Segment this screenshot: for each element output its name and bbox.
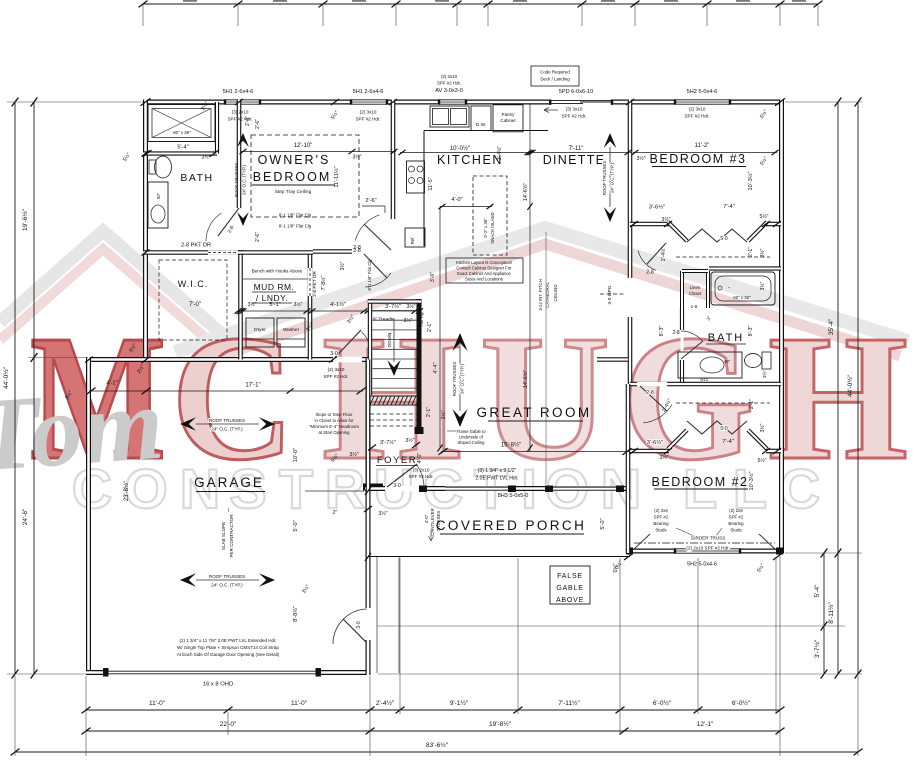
- garage side door 3-0: [343, 619, 368, 644]
- svg-text:10'-3½": 10'-3½": [748, 472, 755, 491]
- svg-text:SLAB SLOPE: SLAB SLOPE: [221, 522, 226, 550]
- svg-text:3½": 3½": [403, 317, 412, 324]
- bedroom2 corner braces: [634, 534, 650, 549]
- svg-text:Dryer: Dryer: [254, 327, 266, 333]
- svg-text:SPF #2 Hdr.: SPF #2 Hdr.: [323, 374, 348, 379]
- stair left wall: [368, 299, 372, 395]
- hall bath tub wall: [709, 266, 781, 270]
- girder truss dashdot: [634, 542, 775, 544]
- svg-text:Frame Gable to: Frame Gable to: [456, 429, 486, 434]
- svg-text:8'-1 1/8" Flat Clg: 8'-1 1/8" Flat Clg: [279, 224, 312, 229]
- svg-text:10'-0": 10'-0": [293, 448, 299, 462]
- svg-text:15'-8½": 15'-8½": [501, 442, 521, 449]
- washer box: [277, 318, 305, 347]
- svg-text:6'-0½": 6'-0½": [653, 699, 672, 707]
- watermark McHugh logo roof gables: [0, 228, 908, 365]
- top extension lines: [142, 4, 144, 26]
- left exterior wall: [143, 100, 148, 361]
- svg-text:2'-6": 2'-6": [255, 232, 261, 242]
- bedroom3 closet angled walls: [668, 222, 687, 241]
- bedroom2 window 5H2: [675, 549, 740, 554]
- watermark text CONSTRUCTION LLC: [72, 457, 820, 520]
- bottom extension lines: [85, 676, 87, 756]
- svg-text:4'-4": 4'-4": [433, 362, 439, 373]
- hall west wall lower: [628, 317, 633, 384]
- great room vertical dim lines: [439, 207, 441, 449]
- stair treads: [373, 310, 417, 312]
- svg-text:24" O.C. (TYP.): 24" O.C. (TYP.): [211, 583, 243, 588]
- svg-text:48": 48": [724, 359, 731, 364]
- garage roof trusses row1: [180, 417, 196, 430]
- svg-text:At Each Side Of Garage Door Op: At Each Side Of Garage Door Opening (See…: [177, 652, 280, 657]
- dinette roof trusses: [604, 133, 617, 148]
- bath south wall: [630, 382, 781, 387]
- bedroom2 closet angled walls: [668, 430, 687, 449]
- bath toilet: [155, 156, 172, 178]
- kitchen counters: [424, 130, 548, 132]
- svg-text:10'-0½": 10'-0½": [450, 145, 470, 152]
- svg-text:FALSE: FALSE: [557, 573, 583, 580]
- svg-text:Sloped Ceiling: Sloped Ceiling: [457, 440, 485, 445]
- svg-text:Hdr Hgt: Hdr Hgt: [419, 311, 424, 326]
- stair right wall: [417, 299, 422, 433]
- right dimension line 44ft: [857, 102, 859, 674]
- bedroom2 bottom wall: [626, 549, 783, 554]
- garage right wall lower: [366, 640, 371, 675]
- svg-text:(2) 2x6: (2) 2x6: [654, 508, 668, 513]
- front wall window 8H3 left: [445, 486, 508, 491]
- bedroom3 closet bifold doors 5-0: [687, 229, 747, 242]
- svg-text:2": 2": [333, 510, 338, 516]
- svg-text:22'-0": 22'-0": [220, 721, 237, 728]
- svg-text:44'-0½": 44'-0½": [2, 366, 10, 389]
- svg-text:Sizes And Locations: Sizes And Locations: [465, 277, 503, 282]
- garage left wall: [86, 357, 91, 675]
- svg-text:5H2 5-0x4-6: 5H2 5-0x4-6: [687, 562, 717, 568]
- svg-text:4'-0": 4'-0": [417, 453, 423, 464]
- svg-text:in Closet to Allow for: in Closet to Allow for: [315, 418, 354, 423]
- stair headroom dashed: [370, 413, 418, 415]
- svg-text:Bearing: Bearing: [728, 521, 744, 526]
- svg-text:24'-6": 24'-6": [22, 508, 29, 525]
- kitchen island dashed: [473, 176, 507, 255]
- svg-text:3½": 3½": [339, 261, 346, 270]
- svg-text:5PD 6-0x6-10: 5PD 6-0x6-10: [559, 89, 594, 95]
- porch sidewalk lines: [376, 557, 378, 673]
- right dimension line 5-4: [823, 553, 825, 674]
- bedroom2 closet bifold doors: [687, 421, 747, 434]
- kitchen pantry cabinet: [493, 105, 523, 132]
- right extension lines: [785, 101, 862, 103]
- svg-text:(3) 3x10: (3) 3x10: [566, 107, 583, 112]
- svg-text:14'-6⅝": 14'-6⅝": [523, 183, 529, 201]
- svg-text:3½": 3½": [405, 437, 414, 444]
- svg-text:5H1 2-6x4-6: 5H1 2-6x4-6: [223, 89, 254, 95]
- svg-text:Bearing: Bearing: [653, 521, 669, 526]
- svg-text:SPF #2: SPF #2: [729, 515, 744, 520]
- bedroom2 hall door: [637, 382, 667, 387]
- svg-text:BEDROOM: BEDROOM: [253, 170, 332, 184]
- svg-text:OWNER'S: OWNER'S: [258, 153, 331, 167]
- svg-text:O: O: [124, 457, 168, 520]
- svg-text:24" O.C. (TYP.): 24" O.C. (TYP.): [610, 162, 615, 193]
- svg-text:Ref: Ref: [410, 237, 415, 245]
- svg-text:23'-8½": 23'-8½": [123, 481, 130, 501]
- svg-text:2'-4½": 2'-4½": [376, 699, 395, 707]
- shower enclosure: [148, 105, 215, 142]
- bath south wall / wic north wall: [143, 250, 243, 255]
- bath vanity: [148, 182, 168, 228]
- svg-text:8H3 5-0x5-0: 8H3 5-0x5-0: [498, 493, 529, 499]
- svg-text:16 x 8 OHD: 16 x 8 OHD: [203, 682, 233, 688]
- svg-text:KITCHEN: KITCHEN: [437, 153, 503, 167]
- svg-text:3½": 3½": [201, 154, 210, 161]
- svg-text:7'-0": 7'-0": [189, 302, 201, 308]
- garage roof trusses row2: [180, 573, 196, 586]
- svg-text:T: T: [279, 457, 313, 520]
- svg-text:8'-3": 8'-3": [748, 326, 754, 337]
- svg-text:(2) 2x10 SPF #2 Hdr.: (2) 2x10 SPF #2 Hdr.: [686, 546, 729, 551]
- kitchen window AV 3-0x3-0: [439, 100, 466, 105]
- svg-text:3'-7½": 3'-7½": [385, 303, 401, 310]
- front door opening 3-0: [385, 486, 419, 492]
- svg-text:5½": 5½": [759, 213, 768, 220]
- svg-text:Exact Cabinet And Appliance: Exact Cabinet And Appliance: [457, 271, 511, 276]
- svg-text:11'-2": 11'-2": [695, 143, 710, 149]
- bath vanity: [678, 352, 742, 378]
- svg-text:8'-1 1/8" Flat Clg: 8'-1 1/8" Flat Clg: [279, 213, 312, 218]
- great room roof trusses: [452, 333, 467, 351]
- svg-text:R: R: [325, 457, 365, 520]
- svg-text:14'-6⅝": 14'-6⅝": [523, 370, 529, 388]
- bedroom2 west wall: [626, 384, 631, 553]
- svg-text:5-0: 5-0: [720, 236, 727, 242]
- svg-text:11'-0": 11'-0": [291, 700, 308, 707]
- svg-text:3½": 3½": [378, 510, 387, 517]
- svg-text:2'-1": 2'-1": [749, 399, 755, 409]
- svg-text:3-0: 3-0: [356, 621, 362, 628]
- bottom dimension row 1: [86, 709, 780, 711]
- svg-text:GREAT ROOM: GREAT ROOM: [476, 405, 591, 420]
- garage interior dim 17-1: [143, 390, 363, 392]
- svg-text:5½": 5½": [757, 457, 766, 464]
- svg-text:2-8: 2-8: [353, 248, 361, 254]
- svg-text:SPF #2 Hdr.: SPF #2 Hdr.: [684, 114, 709, 119]
- svg-text:9" Treads: 9" Treads: [373, 317, 394, 323]
- svg-text:2-8: 2-8: [646, 270, 654, 276]
- kitchen-bedroom wall: [391, 100, 396, 220]
- svg-text:3½": 3½": [759, 248, 766, 257]
- svg-text:Deck / Landing: Deck / Landing: [540, 77, 570, 82]
- front wall window 8H3 right: [553, 486, 616, 491]
- svg-text:4'-1½": 4'-1½": [330, 301, 346, 308]
- svg-text:3½": 3½": [759, 281, 766, 290]
- svg-text:Kitchen Layout Is Conceptual!: Kitchen Layout Is Conceptual!: [456, 260, 512, 265]
- svg-text:2'-1": 2'-1": [426, 407, 432, 417]
- svg-text:ROOF TRUSSES: ROOF TRUSSES: [209, 418, 245, 423]
- svg-text:SPF #2 Hdr.: SPF #2 Hdr.: [355, 117, 380, 122]
- shower south wall: [143, 151, 217, 155]
- right exterior wall: [779, 100, 784, 554]
- svg-text:Step Tray Ceiling: Step Tray Ceiling: [275, 189, 312, 195]
- svg-text:3½": 3½": [759, 423, 766, 432]
- svg-text:(3) 2x10: (3) 2x10: [413, 468, 430, 473]
- garage top wall stub at foyer: [362, 357, 370, 362]
- svg-text:12'-1": 12'-1": [697, 721, 714, 728]
- svg-text:8'-8½": 8'-8½": [292, 606, 299, 622]
- svg-text:11'-11½": 11'-11½": [333, 166, 340, 187]
- bath-bedroom wall: [237, 100, 242, 209]
- svg-text:SPF #2 Hdr.: SPF #2 Hdr.: [408, 474, 433, 479]
- bath west wall: [680, 308, 684, 330]
- svg-text:60" x 36": 60" x 36": [173, 130, 191, 135]
- svg-text:2'-1": 2'-1": [748, 247, 754, 257]
- svg-text:2'-6": 2'-6": [245, 116, 251, 126]
- owners bedroom dim line: [241, 151, 396, 153]
- svg-text:C: C: [72, 457, 112, 520]
- svg-text:2-8 PKT DR: 2-8 PKT DR: [312, 271, 318, 297]
- svg-text:FOYER: FOYER: [377, 455, 417, 466]
- mudroom east wall: [308, 253, 313, 360]
- svg-text:GIRDER TRUSS: GIRDER TRUSS: [691, 536, 726, 541]
- svg-text:9'-1½": 9'-1½": [450, 699, 469, 707]
- svg-text:CEILING: CEILING: [553, 284, 558, 302]
- svg-text:SPF #2 Hdr.: SPF #2 Hdr.: [561, 114, 586, 119]
- garage dim 4-2: [89, 390, 143, 392]
- svg-text:Studs: Studs: [730, 528, 742, 533]
- left extension lines: [7, 101, 143, 103]
- svg-text:7'-11": 7'-11": [569, 146, 584, 152]
- left dimension line 19ft/24ft: [33, 102, 35, 674]
- pocket door dashes bath: [208, 250, 238, 254]
- kitchen DW: [471, 106, 491, 131]
- garage right wall upper: [366, 358, 371, 608]
- svg-text:W/ Single Top Plate + Simpson: W/ Single Top Plate + Simpson CMST14 Coi…: [177, 645, 279, 650]
- svg-text:5'-4": 5'-4": [814, 584, 821, 598]
- mudroom pocket door dashes: [308, 268, 312, 296]
- bedroom3 south wall: [630, 222, 669, 227]
- svg-text:83'-6½": 83'-6½": [426, 741, 449, 749]
- bedroom3 door leaf: [647, 243, 666, 264]
- svg-text:8'-1 1/8" Flat Clg: 8'-1 1/8" Flat Clg: [367, 259, 372, 291]
- top dimension line: [143, 3, 818, 5]
- svg-text:MUD RM.: MUD RM.: [254, 282, 295, 292]
- svg-text:3½": 3½": [659, 454, 668, 461]
- svg-text:6'-0½": 6'-0½": [732, 699, 751, 707]
- svg-text:60": 60": [156, 192, 161, 199]
- watermark text MCHUGH: [30, 298, 908, 498]
- svg-text:8'-11½": 8'-11½": [827, 602, 835, 624]
- svg-text:5-0: 5-0: [720, 426, 727, 432]
- bedroom2 corner blocks: [626, 548, 633, 555]
- great room stub wall: [597, 357, 628, 362]
- svg-text:ROOF TRUSSES: ROOF TRUSSES: [602, 161, 607, 196]
- svg-text:GARAGE: GARAGE: [194, 475, 264, 490]
- linen closet: [680, 271, 684, 308]
- svg-text:24" O.C. (TYP.): 24" O.C. (TYP.): [211, 427, 243, 432]
- kitchen dims: [400, 152, 530, 154]
- svg-text:ROOF TRUSSES: ROOF TRUSSES: [452, 362, 457, 397]
- svg-text:Washer: Washer: [283, 327, 300, 333]
- svg-text:3½": 3½": [661, 216, 670, 223]
- svg-text:DOWN: DOWN: [387, 333, 392, 348]
- svg-text:60" x 32": 60" x 32": [733, 295, 751, 300]
- patio door 5PD: [550, 100, 612, 105]
- svg-text:5H2 5-0x4-6: 5H2 5-0x4-6: [687, 89, 718, 95]
- svg-text:7'-4": 7'-4": [723, 204, 735, 210]
- svg-text:3'-6½": 3'-6½": [649, 204, 665, 211]
- svg-text:24" O.C. (TYP.): 24" O.C. (TYP.): [460, 363, 465, 394]
- svg-text:4'-0": 4'-0": [451, 197, 462, 203]
- misc left ticks: [235, 99, 243, 105]
- svg-text:3½": 3½": [247, 301, 256, 308]
- svg-text:11'-5": 11'-5": [428, 177, 434, 190]
- svg-text:3'-7½": 3'-7½": [813, 639, 821, 658]
- svg-text:3'-6": 3'-6": [430, 272, 436, 282]
- tub: [711, 272, 775, 305]
- bedroom2 closet shelf dashed: [676, 402, 770, 404]
- great room width dim: [441, 451, 629, 453]
- svg-text:10'-3½": 10'-3½": [747, 172, 754, 191]
- svg-text:SPF #2 Hdr.: SPF #2 Hdr.: [437, 81, 461, 86]
- svg-text:ROOF TRUSSES: ROOF TRUSSES: [209, 574, 245, 579]
- garage-mudhall door opening: [333, 357, 362, 363]
- svg-text:(3) 2x10: (3) 2x10: [232, 110, 249, 115]
- svg-text:44'-0½": 44'-0½": [846, 374, 854, 397]
- svg-text:5'-4": 5'-4": [177, 145, 189, 151]
- svg-text:1-6: 1-6: [691, 304, 698, 309]
- svg-text:2'-1": 2'-1": [427, 322, 433, 332]
- svg-text:3'-7½": 3'-7½": [380, 439, 396, 446]
- svg-text:3½": 3½": [406, 303, 415, 310]
- svg-text:3-12 INT. PITCH: 3-12 INT. PITCH: [538, 279, 543, 311]
- tray ceiling dashed rect: [251, 135, 359, 217]
- svg-text:BEDROOM #2: BEDROOM #2: [652, 475, 749, 489]
- svg-text:2'-6": 2'-6": [255, 119, 261, 129]
- svg-text:W.I.C.: W.I.C.: [178, 279, 209, 289]
- front wall jamb blocks: [419, 486, 427, 493]
- hall kitchen wall: [313, 249, 352, 254]
- svg-text:(3) 1 3/4" x 9 1/2": (3) 1 3/4" x 9 1/2": [478, 468, 517, 474]
- svg-text:5'-0": 5'-0": [293, 520, 299, 531]
- svg-text:7'-11½": 7'-11½": [558, 699, 580, 707]
- svg-text:(2) 3x10: (2) 3x10: [441, 74, 458, 79]
- svg-text:3-0: 3-0: [393, 483, 401, 489]
- bedroom3 closet shelf dashed: [676, 256, 770, 258]
- garage overhead door 16x8 OHD: [107, 670, 317, 672]
- svg-text:Cabinet: Cabinet: [500, 118, 516, 123]
- bottom dimension row 2: [86, 730, 780, 732]
- svg-text:3'-4½": 3'-4½": [496, 146, 503, 160]
- svg-text:(2) 3x10: (2) 3x10: [360, 110, 377, 115]
- garage bottom wall: [86, 670, 107, 675]
- svg-text:Slope or Step Floor: Slope or Step Floor: [315, 412, 353, 417]
- mudroom bench: [243, 278, 308, 280]
- window W2 top wall: [351, 100, 387, 105]
- svg-text:24" O.C. (TYP.): 24" O.C. (TYP.): [242, 164, 247, 195]
- window W1 top wall: [225, 100, 260, 105]
- foyer west wall: [366, 360, 371, 492]
- right dimension line 35ft: [837, 102, 839, 674]
- owners roof trusses arrows: [237, 133, 249, 147]
- wic shelves dashed: [159, 260, 227, 340]
- svg-text:GABLE: GABLE: [556, 585, 583, 592]
- svg-text:(2) 3x10: (2) 3x10: [689, 107, 706, 112]
- svg-text:BATH: BATH: [180, 172, 213, 184]
- code required deck box: [531, 66, 579, 86]
- svg-text:BEDROOM #3: BEDROOM #3: [650, 152, 747, 166]
- svg-text:3½": 3½": [352, 154, 361, 161]
- stair top wall: [368, 299, 421, 304]
- svg-text:2.0E PWT LVL Hdr.: 2.0E PWT LVL Hdr.: [476, 476, 519, 482]
- svg-text:SNACK ISLAND: SNACK ISLAND: [490, 212, 495, 244]
- svg-text:2'-4½": 2'-4½": [660, 247, 667, 261]
- bottom dimension row 3: [15, 751, 858, 753]
- svg-text:Bench with Hooks Above: Bench with Hooks Above: [252, 269, 303, 274]
- svg-text:TRUSSES: TRUSSES: [436, 511, 441, 532]
- svg-text:Pantry: Pantry: [502, 112, 515, 117]
- svg-text:ABOVE: ABOVE: [556, 597, 584, 604]
- svg-text:Underside of: Underside of: [459, 435, 484, 440]
- svg-text:2'-6": 2'-6": [365, 198, 376, 204]
- svg-text:17'-1": 17'-1": [245, 383, 260, 389]
- svg-text:19'-8½": 19'-8½": [489, 720, 512, 728]
- bedroom door 2-8: [364, 224, 391, 250]
- svg-text:Closet: Closet: [689, 291, 702, 296]
- svg-text:5'-0": 5'-0": [600, 518, 606, 529]
- dryer box: [246, 318, 274, 347]
- svg-text:2-8: 2-8: [646, 390, 654, 396]
- wic dim ticks: [141, 98, 151, 106]
- svg-text:4'-2": 4'-2": [106, 381, 118, 387]
- svg-text:3-0: 3-0: [330, 351, 338, 357]
- svg-text:7'-8½": 7'-8½": [320, 276, 327, 291]
- interior dim line mudroom: [238, 310, 421, 312]
- kitchen range: [407, 161, 425, 193]
- false gable box: [550, 566, 590, 604]
- svg-text:2-8: 2-8: [672, 330, 679, 336]
- garage porch boundary ext: [305, 490, 364, 492]
- foyer east wall: [417, 406, 422, 433]
- svg-text:19'-6½": 19'-6½": [21, 208, 29, 231]
- porch front edge: [368, 556, 630, 558]
- kitchen sink: [430, 106, 469, 127]
- shower east wall: [215, 102, 219, 154]
- svg-text:3½": 3½": [761, 370, 767, 378]
- svg-text:at Stair Opening: at Stair Opening: [318, 430, 350, 435]
- svg-text:BATH: BATH: [708, 332, 745, 344]
- dinette-bedroom3 wall: [628, 100, 633, 279]
- svg-text:D.W.: D.W.: [476, 122, 486, 128]
- front wall of house at porch: [365, 486, 630, 491]
- svg-text:35'-4": 35'-4": [828, 318, 835, 335]
- bath door 2-6 leaf: [218, 208, 239, 236]
- svg-text:2-8 PKT DR: 2-8 PKT DR: [181, 243, 211, 249]
- svg-text:DINETTE: DINETTE: [543, 153, 606, 167]
- svg-text:ROOF TRUSSES: ROOF TRUSSES: [234, 163, 239, 198]
- svg-text:5H1 2-6x4-6: 5H1 2-6x4-6: [353, 89, 384, 95]
- svg-text:12'-10": 12'-10": [294, 143, 313, 149]
- svg-text:9'-2" x 36": 9'-2" x 36": [483, 218, 488, 238]
- svg-text:COVERED PORCH: COVERED PORCH: [436, 518, 586, 533]
- svg-text:7'-4": 7'-4": [722, 439, 734, 445]
- svg-text:3½": 3½": [440, 410, 447, 419]
- svg-text:Code Required: Code Required: [540, 70, 570, 75]
- svg-text:3½": 3½": [349, 451, 358, 458]
- mudroom north wall: [238, 250, 313, 255]
- svg-text:3-0 OPG: 3-0 OPG: [607, 285, 613, 304]
- svg-text:"Minimum 6'-4" Headroom: "Minimum 6'-4" Headroom: [309, 424, 359, 429]
